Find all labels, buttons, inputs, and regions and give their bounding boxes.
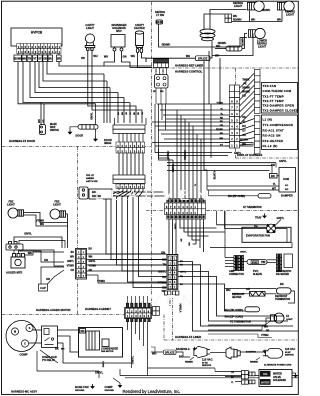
wire display feed 2 — [159, 149, 229, 156]
wire compressor ground diag — [40, 350, 58, 363]
svg-text:RD: RD — [81, 329, 85, 333]
splice bottom — [164, 350, 177, 354]
wire cavity light left — [88, 50, 136, 123]
svg-text:WH: WH — [93, 55, 97, 58]
evaporator fan box — [242, 227, 291, 242]
wire disp switch left — [40, 103, 42, 125]
svg-text:VEN: VEN — [150, 292, 199, 309]
section divider vertical left — [77, 147, 79, 249]
auger motor — [11, 254, 25, 269]
svg-text:WH (ZIP CORD): WH (ZIP CORD) — [225, 309, 244, 312]
svg-text:LIGHT: LIGHT — [258, 45, 266, 49]
wire mc — [143, 322, 145, 346]
svg-text:GROUND: GROUND — [75, 390, 85, 392]
section divider vertical left lower — [77, 277, 79, 315]
svg-text:BU: BU — [220, 121, 224, 123]
wire bulb1 drop — [249, 11, 251, 22]
svg-text:LIGHT: LIGHT — [53, 203, 61, 207]
svg-text:OR: OR — [44, 258, 48, 262]
svg-text:BK: BK — [220, 133, 224, 135]
svg-text:LIGHT: LIGHT — [7, 203, 15, 207]
svg-text:GN/YL: GN/YL — [158, 270, 166, 274]
ground door — [70, 127, 78, 130]
connector cabinet left block — [76, 249, 87, 280]
svg-text:Rendered by LeadVenture, Inc.: Rendered by LeadVenture, Inc. — [123, 389, 181, 394]
wire cavity heater terminals — [137, 53, 139, 62]
connector small left lower — [153, 307, 160, 311]
svg-text:HEATER: HEATER — [232, 296, 242, 299]
svg-text:TERMINATOR: TERMINATOR — [275, 298, 290, 301]
svg-text:FAN MOTOR: FAN MOTOR — [101, 350, 114, 353]
svg-text:GN/YL: GN/YL — [91, 112, 94, 120]
svg-text:OR/WH: OR/WH — [242, 87, 251, 90]
svg-text:CONDENSER: CONDENSER — [101, 347, 118, 351]
wire gn-yl row — [210, 242, 292, 247]
splice — [196, 56, 211, 61]
svg-text:OR: OR — [220, 125, 224, 127]
svg-text:HARNESS-REF LINER: HARNESS-REF LINER — [175, 64, 203, 68]
svg-text:OR: OR — [71, 270, 75, 272]
svg-text:GN: GN — [123, 56, 127, 59]
svg-text:AMBER: AMBER — [86, 177, 94, 180]
svg-text:EVAPORATOR FAN: EVAPORATOR FAN — [246, 233, 270, 237]
label box TX rows — [262, 83, 298, 114]
section divider harness-cabinet — [2, 314, 152, 316]
svg-text:SWITCH: SWITCH — [50, 130, 59, 132]
svg-text:NO: NO — [285, 189, 289, 191]
svg-text:DISP: DISP — [50, 127, 56, 129]
svg-text:RIBBED: RIBBED — [185, 362, 193, 364]
box frz switch labels — [89, 189, 112, 199]
svg-text:AMP: AMP — [229, 269, 235, 273]
svg-text:VT: VT — [33, 57, 37, 60]
section divider harness-ref liner — [152, 67, 299, 69]
wire bottom runs — [37, 370, 99, 372]
wires compressor to relay — [33, 329, 42, 331]
defrost terminator — [277, 288, 292, 294]
connector mc assy — [126, 303, 150, 321]
switch door 2 — [78, 125, 98, 129]
svg-text:RD/BU: RD/BU — [166, 151, 170, 160]
svg-text:RF2-HEATER: RF2-HEATER — [263, 139, 284, 143]
svg-text:BK: BK — [271, 174, 275, 178]
svg-text:COMP: COMP — [19, 353, 27, 357]
wire mc — [127, 322, 129, 330]
svg-text:RX-AC1 STAT: RX-AC1 STAT — [263, 129, 284, 133]
svg-text:RD/WH: RD/WH — [233, 19, 242, 22]
ice water valve box — [259, 370, 292, 387]
svg-text:BK: BK — [179, 355, 183, 359]
connector fz liner tall — [167, 255, 178, 290]
terminal strip 2 — [255, 116, 261, 154]
svg-text:OR: OR — [46, 277, 50, 281]
damper assembly — [279, 168, 296, 193]
wire nested route — [178, 265, 293, 326]
wire solenoid left — [104, 51, 115, 66]
wire auger down cap — [14, 250, 64, 266]
connector ice maker — [277, 254, 282, 272]
wire switch to connector — [19, 241, 65, 249]
wire mid bottom — [148, 367, 216, 369]
wire lights bus — [232, 21, 283, 23]
svg-text:RD: RD — [271, 163, 275, 167]
wire damper TL — [207, 185, 279, 187]
svg-text:VT/WH: VT/WH — [158, 281, 166, 285]
wire evap fan right — [275, 229, 287, 243]
connector pair below tall — [165, 291, 171, 295]
wires defrost — [225, 288, 277, 290]
svg-text:TX2-FT TEMP: TX2-FT TEMP — [263, 99, 284, 103]
svg-text:OR: OR — [246, 287, 250, 291]
svg-text:TRAY: TRAY — [255, 217, 262, 220]
svg-text:TY1-COMPRESSOR: TY1-COMPRESSOR — [263, 123, 294, 127]
wires amp left — [225, 257, 234, 259]
wires splice bottom — [151, 351, 164, 353]
svg-text:GN/YL: GN/YL — [24, 233, 32, 236]
wire grommet down — [196, 41, 213, 58]
wire plug link — [210, 352, 226, 354]
wire grommet up-right — [210, 10, 247, 30]
svg-text:BK: BK — [280, 282, 284, 286]
wire tall connector bottom — [169, 299, 171, 307]
wire from HVPCB — [35, 62, 118, 93]
wire cavity light right — [92, 50, 142, 123]
svg-text:WH: WH — [215, 55, 219, 58]
svg-text:WH (ZIP CORD): WH (ZIP CORD) — [228, 196, 245, 198]
svg-text:M: M — [14, 331, 16, 334]
svg-text:N1-L2 (N): N1-L2 (N) — [263, 144, 278, 148]
svg-text:GN/YL: GN/YL — [89, 261, 97, 263]
svg-text:DOOR: DOOR — [104, 138, 112, 142]
svg-text:MVV: MVV — [116, 30, 122, 33]
svg-text:60 HZ: 60 HZ — [285, 352, 291, 354]
wire from HVPCB — [39, 62, 110, 88]
label box L1 rows — [262, 115, 298, 150]
svg-text:WH: WH — [219, 138, 223, 140]
svg-text:BU: BU — [71, 252, 75, 254]
wire elbow to connector — [159, 156, 174, 161]
wires mc connector up — [127, 296, 129, 303]
svg-text:TL: TL — [273, 182, 277, 186]
wire splice down long — [204, 61, 207, 170]
condenser fan motor box — [79, 328, 123, 358]
switch frz compartment — [6, 242, 23, 251]
connector control board pin strip — [230, 85, 240, 148]
wire runs to control board — [157, 103, 225, 105]
wire stubs connector stack — [155, 68, 157, 75]
label RD boxed — [80, 329, 86, 334]
section divider vertical right — [235, 68, 237, 158]
wire mc — [147, 322, 149, 376]
wire long bottom run — [120, 375, 298, 377]
HVPCB pin header rows — [17, 44, 61, 49]
box BK damper — [270, 174, 278, 179]
wires fz light — [208, 318, 271, 325]
wire stubs HVPCB pins to labels — [17, 54, 19, 56]
svg-text:SLEEVE: SLEEVE — [253, 274, 263, 276]
svg-text:WH: WH — [40, 223, 44, 226]
ground valve — [292, 372, 296, 374]
wire verticals feeding runs — [154, 104, 156, 146]
wire mc — [139, 322, 141, 340]
svg-text:BR: BR — [57, 57, 61, 60]
svg-text:WH/BK: WH/BK — [242, 91, 250, 94]
ice maker box — [284, 254, 293, 268]
ground tray — [263, 214, 266, 218]
svg-text:TX3-FAN: TX3-FAN — [263, 84, 277, 88]
wire barrel right up — [242, 34, 247, 49]
evaporator fan motor — [267, 224, 276, 233]
svg-text:RD/WH: RD/WH — [240, 139, 248, 142]
wire down to connector — [67, 214, 69, 248]
capacitor CAP — [39, 284, 48, 291]
svg-text:TN/BK: TN/BK — [242, 79, 250, 82]
svg-text:60 HZ: 60 HZ — [202, 362, 208, 364]
svg-text:AUTOMATIC: AUTOMATIC — [276, 269, 291, 273]
wire damper WT — [207, 189, 279, 191]
svg-text:VT/BK: VT/BK — [216, 103, 223, 105]
wire disp switch right — [43, 104, 45, 125]
svg-text:WATER: WATER — [261, 381, 270, 384]
section divider vertical fz liner — [163, 315, 165, 341]
svg-text:HARNESS-CONTROL: HARNESS-CONTROL — [175, 70, 203, 74]
svg-text:MAIN: MAIN — [50, 122, 57, 126]
wire relay to motor box — [58, 329, 80, 331]
wire from HVPCB — [59, 62, 152, 67]
svg-text:C: C — [24, 343, 26, 346]
wire grommet up-left — [204, 14, 225, 29]
wire drop bundle to door hinge — [103, 74, 105, 123]
svg-text:SOLENOID: SOLENOID — [273, 379, 286, 382]
svg-text:LEADVEN: LEADVEN — [95, 187, 214, 204]
wire frz lights bus 1 — [24, 213, 68, 223]
svg-text:BU: BU — [48, 57, 52, 60]
svg-text:SERVICE: SERVICE — [202, 365, 212, 367]
svg-text:TX1-DAMPER CLOSED: TX1-DAMPER CLOSED — [263, 108, 299, 112]
svg-text:CAP: CAP — [40, 286, 46, 290]
svg-text:BK: BK — [162, 258, 166, 262]
section divider harness-fz liner — [164, 339, 298, 341]
svg-text:WH: WH — [186, 55, 190, 58]
svg-text:GY: GY — [220, 145, 224, 147]
wires into cabinet connector top — [168, 158, 170, 199]
svg-text:LIGHT: LIGHT — [86, 26, 94, 30]
wire relay long — [58, 343, 132, 363]
wire cord link — [240, 351, 266, 353]
svg-text:WH: WH — [216, 45, 220, 48]
svg-text:BU/GY: BU/GY — [213, 171, 217, 180]
section divider horizontal right-mid — [146, 210, 298, 212]
svg-text:HARNESS-FZ DOOR: HARNESS-FZ DOOR — [9, 139, 35, 143]
svg-text:VT/WH: VT/WH — [89, 266, 97, 268]
svg-text:PVC: PVC — [253, 269, 258, 273]
svg-text:TN: TN — [163, 263, 167, 267]
svg-text:RX-AC2 ON: RX-AC2 ON — [263, 134, 281, 138]
svg-text:GN/YL: GN/YL — [103, 360, 105, 367]
pins below bar2 — [116, 184, 145, 189]
svg-text:WH: WH — [70, 257, 74, 259]
svg-text:LT SW: LT SW — [156, 13, 165, 17]
svg-text:GY: GY — [242, 130, 246, 133]
svg-text:GN/YL: GN/YL — [131, 356, 135, 365]
svg-text:RD: RD — [220, 118, 224, 120]
svg-text:BU: BU — [89, 249, 93, 251]
wire door sw up — [95, 104, 97, 125]
wire from HVPCB — [30, 62, 124, 98]
wire nested route — [178, 284, 258, 311]
defrost heater element — [250, 292, 266, 297]
alternate power cord plug — [263, 349, 283, 359]
svg-text:GN/YL: GN/YL — [95, 371, 104, 375]
svg-text:115 VAC: 115 VAC — [285, 347, 295, 351]
condenser fan motor — [86, 331, 109, 350]
svg-text:WT: WT — [272, 187, 276, 191]
wire lower light drop — [212, 34, 253, 56]
wire frz lights bus 2 — [24, 215, 68, 226]
svg-text:WH: WH — [160, 91, 164, 93]
svg-text:DAMPER: DAMPER — [281, 194, 293, 198]
svg-text:WH: WH — [131, 54, 135, 58]
svg-text:COM-THERM COM: COM-THERM COM — [263, 89, 292, 93]
pvc sleeve — [247, 260, 267, 265]
wire auger wh — [25, 252, 65, 255]
svg-text:GN/YL: GN/YL — [67, 261, 75, 263]
svg-text:WH: WH — [104, 56, 108, 59]
switch MAIN DISP SWITCH — [40, 125, 46, 135]
connector control 2x2 — [155, 75, 169, 89]
svg-text:PK: PK — [243, 83, 247, 86]
wire amp up — [224, 211, 226, 258]
wire switch to ground2 — [95, 129, 97, 136]
svg-text:RD: RD — [266, 331, 270, 333]
svg-text:FM: FM — [254, 225, 257, 228]
svg-text:SERVICE: SERVICE — [285, 355, 294, 357]
wires cabinet connector down — [168, 219, 170, 255]
svg-text:WH: WH — [242, 143, 246, 146]
wire nested route — [178, 262, 298, 332]
svg-text:WH (ZIP CORD): WH (ZIP CORD) — [225, 316, 244, 319]
svg-text:GY: GY — [38, 57, 42, 60]
wire from HVPCB — [23, 62, 130, 103]
svg-text:RD/WH: RD/WH — [262, 9, 271, 12]
svg-text:FZ: FZ — [286, 315, 290, 318]
wire frz light 2 drop — [66, 213, 68, 215]
svg-text:RD: RD — [162, 275, 166, 279]
svg-text:BR: BR — [81, 57, 85, 60]
svg-text:SPLICE: SPLICE — [198, 57, 208, 61]
svg-text:HVPCB: HVPCB — [31, 31, 43, 35]
svg-text:GROUND: GROUND — [105, 390, 115, 392]
power cord plug main — [194, 347, 210, 358]
connector harness-ref liner junction barrel — [154, 59, 169, 68]
wire long right 1 — [208, 51, 210, 104]
connector door hinge bar — [113, 125, 145, 129]
wire solenoid right — [122, 51, 153, 68]
wire splice left — [152, 57, 196, 59]
svg-text:VT/WH: VT/WH — [67, 266, 75, 268]
svg-text:RD/WH: RD/WH — [13, 57, 22, 60]
svg-text:CONNECTOR: CONNECTOR — [229, 274, 244, 276]
wire gn-yl diag to fan — [276, 220, 282, 226]
pins above bar — [114, 118, 116, 125]
wires to damper — [167, 162, 276, 164]
wire auger or — [19, 251, 65, 262]
wire long bottom run 2 — [125, 377, 298, 379]
svg-text:FZ THERMISTOR: FZ THERMISTOR — [243, 207, 262, 209]
svg-text:TN: TN — [261, 260, 265, 264]
section divider vertical mid — [151, 211, 153, 315]
svg-text:RD: RD — [242, 116, 246, 119]
wires amp to sleeve — [244, 261, 247, 263]
svg-text:WH: WH — [89, 257, 93, 259]
wire refrig lt sw down — [159, 24, 241, 47]
svg-text:WH: WH — [251, 18, 255, 21]
svg-text:LIGHT: LIGHT — [234, 4, 242, 8]
svg-text:LIGHT: LIGHT — [286, 13, 294, 17]
svg-text:BK: BK — [55, 347, 59, 351]
wires valve left — [215, 371, 242, 373]
svg-text:RIBBED: RIBBED — [250, 362, 258, 364]
svg-text:RD/WH: RD/WH — [218, 42, 227, 45]
connector refrig lights — [225, 14, 231, 18]
wire mc — [135, 322, 137, 334]
svg-text:DB: DB — [162, 286, 166, 290]
wires evap feed verticals — [216, 211, 218, 225]
svg-text:WH: WH — [264, 327, 268, 329]
section divider below cabinet connector — [172, 298, 174, 340]
svg-text:DB: DB — [242, 95, 246, 98]
wire barrel left — [215, 48, 226, 50]
svg-text:HARNESS-CABINET: HARNESS-CABINET — [85, 307, 111, 311]
svg-text:ICE MAKER: ICE MAKER — [276, 273, 289, 276]
svg-text:FZ THERMISTOR: FZ THERMISTOR — [230, 320, 251, 324]
svg-text:OR: OR — [242, 134, 246, 137]
svg-text:HATCH SW: HATCH SW — [86, 180, 99, 183]
svg-text:WH: WH — [22, 57, 26, 60]
svg-text:115 VAC: 115 VAC — [202, 358, 213, 362]
svg-text:HARNESS-MC ASSY: HARNESS-MC ASSY — [11, 390, 37, 394]
svg-text:SPLICE: SPLICE — [165, 351, 175, 355]
op-amp HVPCB control board — [11, 28, 62, 46]
power cord center — [226, 347, 240, 359]
wire thermistor top — [209, 195, 259, 197]
wire long right 2 — [219, 58, 221, 104]
section divider vertical top — [151, 2, 153, 211]
fz light lamp — [271, 313, 285, 323]
svg-text:OR: OR — [43, 57, 47, 60]
svg-text:L1 (N): L1 (N) — [263, 117, 273, 121]
svg-text:GN/YL: GN/YL — [240, 252, 247, 254]
svg-text:GN/YL: GN/YL — [279, 160, 287, 163]
svg-text:VT/WH: VT/WH — [261, 335, 269, 337]
wire display feed 1 — [155, 146, 232, 153]
wire from HVPCB — [47, 62, 104, 75]
lamp lower refrig light — [248, 28, 265, 38]
svg-text:ICE: ICE — [263, 372, 268, 376]
svg-text:WH: WH — [28, 251, 33, 255]
svg-text:COM: COM — [283, 178, 289, 181]
svg-text:GN: GN — [161, 251, 165, 255]
wire vt-wh — [208, 334, 272, 338]
wire cap up — [41, 267, 64, 284]
svg-text:DEFROST: DEFROST — [275, 294, 288, 298]
svg-text:WH: WH — [277, 18, 281, 21]
wire frz switch right — [112, 191, 165, 193]
wire nested route — [178, 277, 283, 317]
wires block down to bar2 — [118, 153, 120, 175]
svg-text:RD/WH: RD/WH — [242, 38, 245, 47]
wires evap fan left — [217, 224, 267, 226]
